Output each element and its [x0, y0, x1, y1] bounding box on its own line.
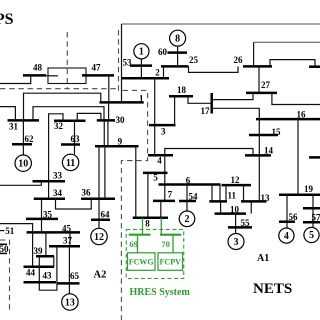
wire 69 to FCWG: [137, 235, 139, 253]
bus 10: [215, 212, 247, 215]
wire 32 to 63 G11: [74, 121, 76, 155]
svg-text:14: 14: [264, 146, 274, 156]
wire 27 to right: [272, 93, 320, 105]
generator G12: [91, 228, 107, 244]
wire 25 to 2: [163, 66, 165, 78]
svg-text:FCWG: FCWG: [129, 258, 154, 267]
generator G2: [179, 211, 195, 227]
bus 9: [95, 145, 139, 148]
bus 56: [279, 220, 295, 223]
wire 39-43 chain: [39, 246, 57, 290]
svg-text:63: 63: [71, 134, 81, 144]
wire 18 to 3: [174, 96, 176, 125]
wire 17 to 16 chain: [213, 108, 260, 201]
svg-text:4: 4: [284, 231, 289, 242]
wire 6 to 54 G2: [186, 185, 188, 212]
bus 5: [143, 172, 168, 175]
bus 2: [121, 77, 169, 80]
svg-text:30: 30: [116, 115, 126, 125]
bus 17: [210, 93, 213, 114]
bus 16: [256, 118, 320, 121]
svg-text:55: 55: [241, 218, 251, 228]
svg-text:47: 47: [92, 63, 102, 73]
svg-text:70: 70: [162, 239, 171, 249]
svg-text:48: 48: [33, 63, 43, 73]
wire 31 to edge: [0, 107, 15, 121]
wire 18 to 17: [188, 96, 211, 103]
bus 25: [161, 65, 189, 68]
wire 12 to 11: [225, 185, 227, 201]
wire 25 to 26: [189, 66, 239, 72]
generator G3: [228, 234, 244, 250]
bus 43: [24, 281, 57, 284]
bus 47: [82, 74, 114, 77]
wire 26 to 28: [270, 60, 315, 67]
wire 1 to 31: [24, 93, 101, 120]
svg-text:32: 32: [54, 121, 64, 131]
wire edge bus right: [309, 156, 320, 159]
svg-text:8: 8: [175, 34, 180, 45]
wire 6 to 11 a: [211, 185, 213, 202]
wire 37 to 65 G13: [68, 246, 70, 294]
bus 32: [54, 119, 86, 122]
svg-text:2: 2: [185, 214, 190, 225]
wire 30 to 9 a: [103, 120, 105, 146]
svg-text:27: 27: [261, 80, 271, 90]
svg-text:26: 26: [234, 55, 244, 65]
svg-text:2: 2: [155, 68, 160, 78]
svg-text:10: 10: [230, 204, 240, 214]
svg-text:35: 35: [43, 209, 53, 219]
wire tie line 26-right: [254, 41, 320, 43]
svg-text:12: 12: [94, 232, 104, 243]
svg-text:43: 43: [43, 271, 53, 281]
bus 34: [34, 198, 65, 201]
svg-text:37: 37: [63, 236, 73, 246]
bus 26: [243, 65, 272, 68]
bus 44: [24, 265, 55, 268]
bus 20: [303, 207, 320, 210]
wire edge to 44: [0, 224, 33, 267]
bus 3: [149, 124, 176, 127]
wire 51 stub: [0, 230, 5, 232]
svg-text:13: 13: [65, 297, 75, 308]
svg-text:NETS: NETS: [253, 281, 292, 297]
svg-text:17: 17: [201, 106, 211, 116]
wire edge to 48 jog: [0, 75, 31, 83]
svg-text:10: 10: [18, 159, 28, 170]
boundary NETS-NYPS 1: [119, 30, 148, 320]
bus 4: [148, 154, 173, 157]
wire 39-44 link: [53, 256, 55, 267]
bus 12: [222, 184, 252, 187]
wire 12 to 13: [243, 185, 245, 201]
bus 15: [249, 134, 278, 137]
bus 63: [61, 143, 80, 146]
bus 33: [33, 180, 66, 183]
bus 19: [279, 194, 320, 197]
svg-text:3: 3: [234, 237, 239, 248]
wire 8 to 69: [142, 218, 144, 235]
svg-text:39: 39: [34, 246, 44, 256]
bus 35: [26, 218, 58, 221]
svg-text:4: 4: [157, 155, 162, 165]
wire 45 to 39: [45, 232, 47, 256]
bus 6: [159, 183, 221, 186]
svg-text:57: 57: [312, 212, 320, 222]
svg-text:15: 15: [272, 127, 282, 137]
wire 32 to 33: [49, 114, 63, 199]
wire 13 to 10: [250, 201, 252, 213]
bus 36: [81, 198, 115, 201]
boundary NYPS top: [0, 88, 118, 90]
svg-text:50: 50: [0, 244, 9, 254]
bus 69: [129, 234, 151, 236]
generator G8: [170, 30, 186, 46]
generator G1: [134, 44, 149, 59]
bus 30: [97, 119, 115, 122]
generator G11: [62, 154, 78, 170]
bus 57: [303, 221, 320, 224]
generator G10: [15, 155, 31, 171]
svg-text:56: 56: [289, 212, 299, 222]
svg-text:9: 9: [118, 136, 123, 146]
svg-text:53: 53: [123, 57, 133, 67]
bus 48: [23, 74, 46, 77]
svg-text:33: 33: [53, 171, 63, 181]
wire 33 to edge: [0, 181, 41, 185]
wire 9 to 8: [135, 146, 137, 218]
svg-text:13: 13: [261, 193, 271, 203]
svg-text:1: 1: [139, 93, 144, 103]
svg-text:36: 36: [82, 187, 92, 197]
svg-text:31: 31: [9, 121, 19, 131]
svg-text:8: 8: [145, 218, 150, 228]
svg-text:FCPV: FCPV: [160, 258, 182, 267]
svg-text:5: 5: [309, 230, 314, 241]
bus 1: [100, 101, 144, 104]
wire 5 to 8: [147, 173, 149, 218]
bus 54: [179, 200, 196, 203]
svg-text:18: 18: [177, 85, 187, 95]
wire 70 to FCPV: [172, 235, 174, 253]
wire 45 to 37: [69, 232, 71, 246]
bus 14: [245, 154, 271, 157]
wire 31 to 30: [33, 107, 104, 121]
wire 8 to 70: [160, 218, 162, 235]
wire 34 to 45: [41, 199, 43, 233]
svg-text:A1: A1: [257, 253, 269, 264]
svg-text:1: 1: [139, 46, 144, 57]
HRES dashed box: [126, 230, 184, 279]
bus 7: [153, 200, 175, 203]
wire line 2 up corner: [121, 24, 123, 78]
bus 13: [241, 200, 267, 203]
svg-text:65: 65: [70, 271, 80, 281]
boundary A2 corner: [0, 240, 10, 312]
svg-text:11: 11: [66, 158, 75, 169]
svg-text:60: 60: [158, 47, 168, 57]
bus 62: [12, 143, 32, 146]
svg-text:PS: PS: [0, 11, 14, 28]
svg-text:54: 54: [189, 191, 199, 201]
wire 26 to 27: [258, 66, 260, 93]
wire 34 to 36 staple: [56, 199, 92, 209]
wire 19-20-57 G5: [312, 195, 314, 228]
svg-text:44: 44: [26, 268, 36, 278]
bus 8: [133, 217, 168, 220]
wire 32 to 30: [77, 113, 101, 120]
wire 6 to 11 b: [219, 185, 221, 202]
svg-text:34: 34: [53, 188, 63, 198]
wire 7 to 8: [160, 201, 162, 218]
transformer 48-47: [48, 68, 86, 84]
wire G8 to bus25: [177, 46, 179, 66]
wire 1 to 30: [108, 102, 110, 120]
wire 19 to 56 G4: [286, 195, 288, 228]
wire 48 into xfmr: [46, 75, 58, 77]
svg-text:69: 69: [130, 239, 139, 249]
bus 27: [246, 92, 277, 95]
generator G4: [279, 228, 294, 243]
wire 2 to 1: [121, 78, 123, 102]
bus 65: [58, 282, 80, 285]
bus 18: [169, 95, 193, 98]
generator G13: [62, 294, 78, 310]
wire 47 to 1: [108, 75, 110, 102]
svg-text:7: 7: [168, 190, 173, 200]
bus 50 stub marks: [0, 243, 7, 245]
svg-text:51: 51: [5, 226, 15, 236]
wire 4-14 route: [165, 149, 253, 201]
bus 37: [49, 245, 80, 248]
svg-text:19: 19: [304, 184, 314, 194]
svg-text:62: 62: [25, 134, 35, 144]
bus 70: [160, 234, 181, 236]
bus 11: [209, 200, 227, 203]
wire 31 to 62 G10: [22, 120, 24, 155]
svg-text:3: 3: [161, 127, 166, 137]
boundary A-left: [66, 32, 68, 89]
bus 64: [91, 218, 110, 221]
wire 27 to 17: [213, 93, 253, 100]
wire 26 up: [253, 42, 255, 66]
bus 45: [27, 231, 81, 234]
wire 2 to 3 to 4: [154, 78, 156, 155]
wire 9 to 36 a: [104, 146, 106, 199]
wire 11 to 10: [220, 201, 222, 213]
wire 16 to 19: [297, 119, 299, 195]
wire tie line top: [122, 23, 320, 25]
svg-text:6: 6: [186, 175, 191, 185]
svg-text:12: 12: [231, 175, 241, 185]
svg-text:45: 45: [62, 224, 72, 234]
bus 55: [228, 226, 252, 229]
bus 31: [8, 119, 40, 122]
svg-text:16: 16: [297, 110, 307, 120]
svg-text:11: 11: [228, 191, 237, 201]
FCPV unit: [158, 253, 183, 270]
svg-text:64: 64: [101, 210, 111, 220]
svg-text:HRES System: HRES System: [130, 287, 191, 298]
FCWG unit: [128, 253, 156, 270]
wire G1 to bus2: [140, 59, 142, 78]
wire 9 to 64 G12: [98, 146, 100, 228]
wire 30 to 9 b: [107, 120, 109, 146]
bus 39: [36, 255, 54, 258]
bus 53: [130, 64, 152, 67]
wire 10 to 55 G3: [235, 214, 237, 234]
svg-text:25: 25: [189, 55, 199, 65]
bus 60: [168, 51, 188, 54]
svg-text:A2: A2: [94, 270, 107, 281]
svg-text:5: 5: [153, 172, 158, 182]
generator G5: [304, 227, 319, 242]
bus 28: [309, 65, 320, 68]
